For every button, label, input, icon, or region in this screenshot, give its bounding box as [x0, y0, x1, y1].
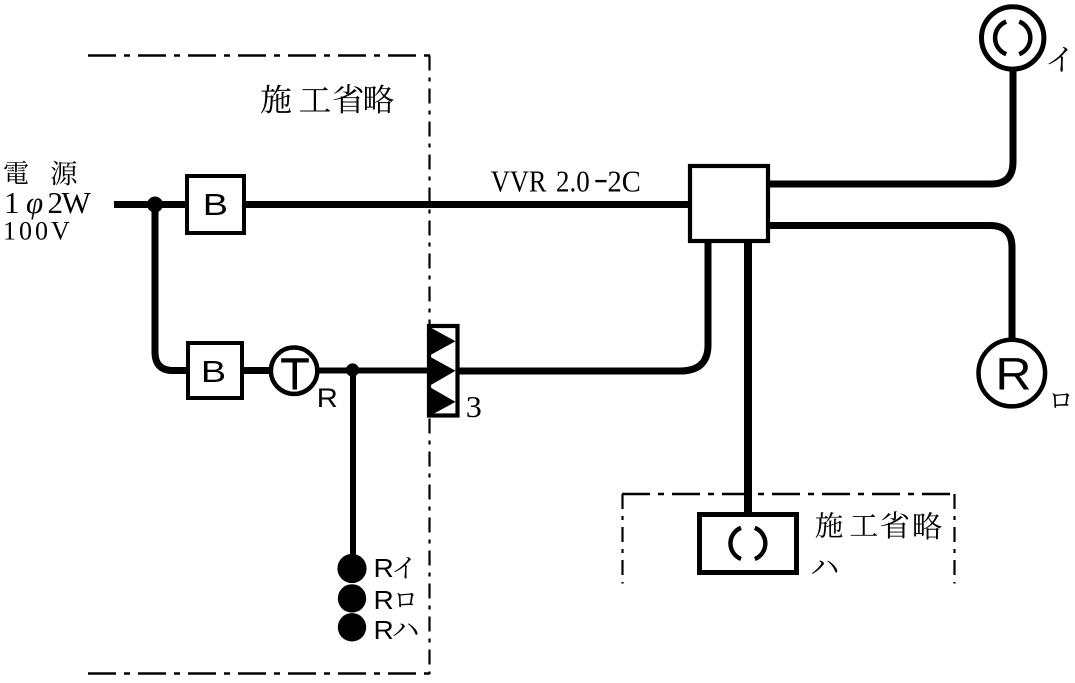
- wire: down from source node, curving into breaker B2: [155, 205, 186, 371]
- wire: source to junction box (VVR 2.0-2C run): [114, 201, 688, 208]
- connector triangle 3: [430, 387, 456, 416]
- label construction-omitted (top): [261, 85, 291, 114]
- ceiling receptacle I left paren arc: [995, 22, 1006, 55]
- construction-omitted box bottom-right right edge: [953, 494, 955, 584]
- construction-omitted box bottom-right left edge: [621, 494, 623, 584]
- breaker B1 box: [187, 176, 244, 233]
- svg-text:2.0: 2.0: [556, 165, 590, 199]
- svg-text:3: 3: [466, 390, 482, 424]
- connector triangle 1: [430, 327, 456, 356]
- svg-text:W: W: [62, 185, 92, 220]
- svg-text:B: B: [201, 355, 226, 389]
- svg-text:VVR: VVR: [491, 164, 547, 198]
- svg-text:R: R: [374, 586, 394, 615]
- receptacle HA left paren arc: [730, 528, 741, 559]
- wire: connector to junction box bottom (left leg): [459, 242, 708, 371]
- connector box: [429, 326, 458, 416]
- wire: junction box down to receptacle HA: [744, 242, 752, 512]
- svg-text:R: R: [374, 616, 394, 645]
- ceiling receptacle I right paren arc: [1019, 22, 1030, 55]
- svg-text:2C: 2C: [608, 164, 641, 198]
- label I (katakana): [1049, 47, 1068, 72]
- svg-text:100V: 100V: [3, 216, 73, 245]
- wire: timer TR to 3-way connector: [317, 368, 429, 374]
- source label DENGEN: [4, 161, 28, 184]
- svg-text:B: B: [203, 188, 228, 222]
- timer TR letter T: [281, 358, 309, 389]
- construction-omitted box bottom-right top edge: [622, 493, 955, 495]
- label RO (katakana): [1052, 393, 1069, 408]
- junction box: [690, 166, 768, 241]
- receptacle HA right paren arc: [755, 528, 766, 559]
- svg-text:R: R: [317, 383, 338, 412]
- wire: breaker B2 to timer TR: [244, 367, 272, 374]
- svg-text:φ: φ: [26, 185, 43, 220]
- lamp receptacle dot 3: [338, 613, 366, 641]
- junction node at source tap: [147, 197, 163, 213]
- ceiling receptacle I outer circle: [982, 7, 1044, 69]
- svg-text:R: R: [374, 554, 394, 583]
- lamp receptacle dot 2: [338, 584, 366, 612]
- lamp R outer circle: [979, 340, 1046, 407]
- label construction-omitted (bottom): [816, 512, 843, 538]
- construction-omitted box left bottom edge: [88, 672, 430, 674]
- wire: node down to lamp stack R: [350, 371, 356, 557]
- breaker B2 box: [188, 343, 242, 398]
- construction-omitted box left right edge: [428, 56, 430, 675]
- lamp receptacle dot 1: [337, 554, 366, 583]
- timer TR circle: [271, 348, 317, 394]
- label HA (katakana): [812, 560, 837, 573]
- construction-omitted box left (dash-dot) top edge: [88, 54, 430, 56]
- receptacle HA box: [700, 515, 797, 573]
- wire: junction box to ceiling lamp I (top right): [770, 71, 1013, 184]
- svg-text:1: 1: [4, 185, 20, 220]
- svg-text:R: R: [995, 350, 1031, 400]
- junction node after timer: [346, 363, 359, 376]
- wire: junction box to lamp R (ro): [770, 226, 1012, 339]
- connector triangle 2: [430, 357, 456, 386]
